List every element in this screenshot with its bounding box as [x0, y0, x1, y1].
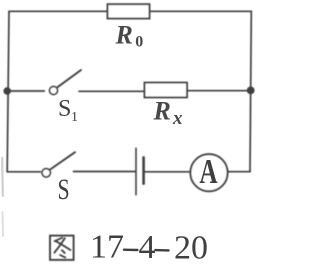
svg-text:A: A	[199, 152, 217, 191]
wire: resistor Rx to right junction	[187, 90, 251, 92]
node: left junction	[3, 87, 11, 95]
wire: switch S1 to resistor Rx	[79, 90, 144, 92]
svg-text:R: R	[115, 21, 133, 50]
scan artifact: faint streak left edge	[1, 158, 4, 236]
battery cell	[136, 148, 144, 194]
wire: ammeter to bottom-right corner	[228, 171, 250, 173]
wire: bottom branch, corner to switch S	[7, 171, 40, 173]
label R0	[115, 21, 144, 51]
svg-text:1: 1	[71, 110, 78, 125]
wire: battery to ammeter	[145, 171, 190, 173]
label Rx	[153, 97, 184, 130]
svg-text:4: 4	[139, 229, 156, 266]
caption dash 1	[124, 248, 137, 251]
node: right junction	[247, 87, 255, 95]
wire: top side	[9, 10, 251, 12]
ammeter A	[190, 154, 227, 191]
wire: switch S to battery	[74, 171, 136, 173]
svg-text:R: R	[153, 97, 171, 126]
switch S	[42, 152, 75, 177]
caption text 17-4-20	[90, 229, 208, 266]
svg-text:20: 20	[174, 230, 208, 266]
svg-text:S: S	[58, 96, 71, 122]
resistor R0	[108, 4, 150, 18]
wire: right side	[250, 11, 251, 171]
svg-text:17: 17	[90, 229, 124, 266]
svg-text:0: 0	[135, 34, 143, 51]
wire: middle branch, node to switch S1	[7, 90, 44, 92]
wire: left side	[7, 11, 9, 172]
label S1	[58, 96, 78, 125]
resistor Rx	[145, 83, 188, 98]
caption dash 2	[155, 249, 168, 252]
svg-text:S: S	[58, 173, 70, 206]
switch S1	[50, 70, 82, 95]
svg-text:x: x	[172, 108, 183, 129]
caption character 图 (hand-drawn)	[50, 236, 74, 260]
